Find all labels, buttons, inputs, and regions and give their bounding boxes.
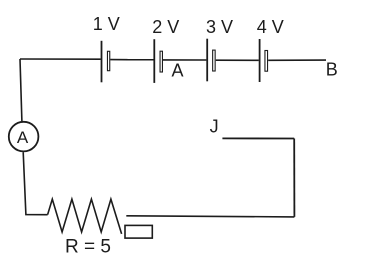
wire between cell 1 and cell 2: [110, 59, 153, 61]
node A label: [172, 61, 184, 81]
battery cell 2 (2 V): [154, 39, 162, 83]
battery cell 4 (4 V): [260, 39, 268, 82]
node J label: [210, 116, 219, 136]
value label 4 V: [257, 17, 284, 37]
wire from ammeter down to bottom-left corner: [23, 152, 47, 215]
wire between cell 2 and cell 3: [163, 59, 206, 61]
value label 1 V: [93, 14, 120, 34]
svg-text:1 V: 1 V: [93, 14, 120, 34]
ammeter A: [9, 122, 39, 152]
svg-text:A: A: [172, 61, 184, 81]
wire from cell 4 to node B: [268, 59, 326, 61]
value label 3 V: [206, 17, 233, 37]
wire right vertical of J branch: [293, 139, 295, 217]
svg-text:4 V: 4 V: [257, 17, 284, 37]
value label R = 5: [65, 237, 111, 258]
slider jockey box on resistor: [125, 225, 152, 238]
wire horizontal of J branch: [222, 137, 294, 139]
svg-text:R = 5: R = 5: [65, 237, 111, 258]
svg-text:J: J: [210, 116, 219, 136]
battery cell 3 (3 V): [207, 39, 215, 82]
node B label: [326, 60, 338, 80]
svg-text:2 V: 2 V: [152, 17, 179, 37]
svg-text:A: A: [17, 128, 29, 147]
svg-text:3 V: 3 V: [206, 17, 233, 37]
battery cell 1 (1 V): [102, 41, 110, 83]
value label 2 V: [152, 17, 179, 37]
svg-text:B: B: [326, 60, 338, 80]
wire top segment from left corner to cell 1: [20, 58, 101, 60]
wire left side down to ammeter: [20, 59, 22, 121]
wire bottom from jockey to right corner: [126, 216, 294, 217]
resistor R (zigzag): [48, 199, 122, 234]
wire between cell 3 and cell 4: [216, 59, 259, 61]
